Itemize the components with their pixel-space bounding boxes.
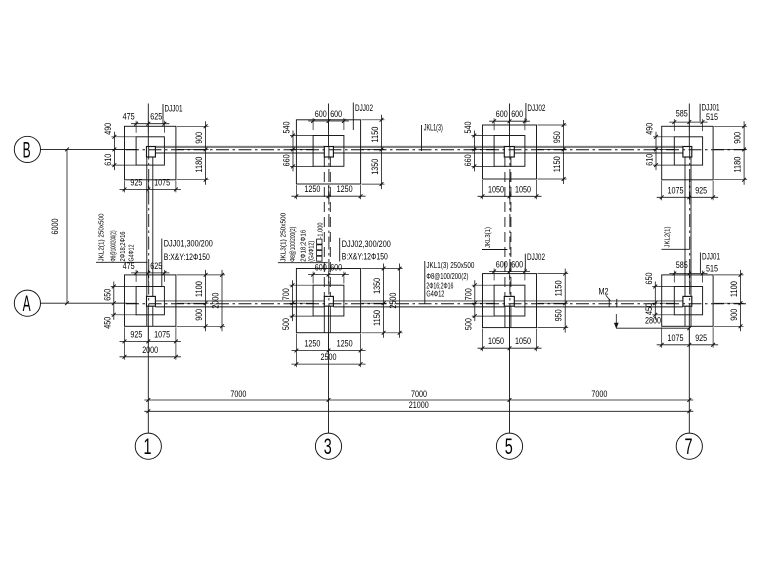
svg-text:1150: 1150 [370,127,380,143]
svg-text:1180: 1180 [733,157,743,173]
svg-text:925: 925 [695,333,707,343]
svg-text:-1.000: -1.000 [316,223,325,239]
svg-text:950: 950 [552,131,562,143]
svg-text:900: 900 [194,132,204,144]
svg-text:1150: 1150 [554,280,564,296]
svg-text:M2: M2 [599,287,609,297]
svg-text:1075: 1075 [668,185,684,195]
svg-text:(G4Φ12): (G4Φ12) [306,241,315,262]
svg-text:Φ8@100/200(2): Φ8@100/200(2) [426,272,468,281]
svg-text:DJJ01,300/200: DJJ01,300/200 [164,239,213,249]
svg-text:600: 600 [511,109,523,119]
svg-text:600: 600 [511,259,523,269]
svg-text:600: 600 [330,109,342,119]
svg-text:7: 7 [685,434,693,459]
svg-text:DJJ02: DJJ02 [355,103,373,113]
svg-text:1250: 1250 [337,339,353,349]
svg-text:925: 925 [695,185,707,195]
svg-text:475: 475 [123,112,135,122]
svg-text:JKL2(1) 250x500: JKL2(1) 250x500 [97,214,106,262]
svg-text:G4Φ12: G4Φ12 [127,245,136,262]
svg-text:600: 600 [496,109,508,119]
svg-text:Φ8@100/200(2): Φ8@100/200(2) [108,231,117,262]
svg-text:7000: 7000 [230,389,246,399]
svg-text:450: 450 [644,303,654,315]
svg-text:JKL3(1): JKL3(1) [483,227,492,248]
svg-text:JKL3(1) 250x500: JKL3(1) 250x500 [278,213,287,262]
svg-text:1150: 1150 [552,156,562,172]
svg-text:3: 3 [324,434,332,459]
svg-text:DJJ02,300/200: DJJ02,300/200 [342,239,391,249]
svg-text:JKL1(3) 250x500: JKL1(3) 250x500 [426,261,475,270]
svg-text:2000: 2000 [211,293,221,309]
svg-text:DJJ01: DJJ01 [702,252,720,262]
svg-text:1180: 1180 [194,157,204,173]
svg-text:950: 950 [554,309,564,321]
svg-text:DJJ01: DJJ01 [165,104,183,114]
svg-text:625: 625 [150,112,162,122]
svg-text:2800: 2800 [645,316,661,326]
svg-text:450: 450 [102,317,112,329]
svg-text:B:X&Y:12Φ150: B:X&Y:12Φ150 [164,252,210,262]
svg-text:DJJ01: DJJ01 [702,103,720,113]
svg-text:900: 900 [729,309,739,321]
svg-text:1075: 1075 [668,333,684,343]
svg-text:7000: 7000 [591,389,607,399]
svg-text:1350: 1350 [370,159,380,175]
svg-text:6000: 6000 [50,219,60,235]
svg-text:660: 660 [463,154,473,166]
svg-text:900: 900 [733,132,743,144]
svg-text:1: 1 [144,434,152,459]
svg-text:600: 600 [330,263,342,273]
svg-text:A: A [23,291,31,316]
svg-text:515: 515 [706,264,718,274]
svg-text:925: 925 [130,177,142,187]
svg-text:Φ8@100/200(2): Φ8@100/200(2) [288,227,297,262]
svg-text:610: 610 [645,154,655,166]
svg-text:JKL1(3): JKL1(3) [424,123,443,133]
svg-text:B: B [23,137,31,162]
svg-text:1100: 1100 [729,281,739,297]
svg-text:1250: 1250 [304,339,320,349]
svg-text:515: 515 [706,112,718,122]
svg-text:1050: 1050 [488,336,504,346]
svg-text:2500: 2500 [388,293,398,309]
svg-text:540: 540 [282,122,292,134]
svg-text:1250: 1250 [304,184,320,194]
svg-text:7000: 7000 [411,389,427,399]
svg-text:490: 490 [645,123,655,135]
svg-text:2000: 2000 [142,345,158,355]
svg-text:650: 650 [102,289,112,301]
svg-text:610: 610 [103,154,113,166]
svg-text:1050: 1050 [515,336,531,346]
svg-text:540: 540 [463,122,473,134]
svg-text:DJJ02: DJJ02 [527,103,545,113]
svg-text:600: 600 [315,109,327,119]
svg-text:JKL2(1): JKL2(1) [663,227,672,248]
svg-text:2Φ18;2Φ16: 2Φ18;2Φ16 [118,232,127,262]
svg-text:1075: 1075 [154,329,170,339]
svg-text:490: 490 [103,123,113,135]
svg-text:1050: 1050 [515,184,531,194]
svg-text:500: 500 [281,318,291,330]
svg-text:2500: 2500 [321,352,337,362]
svg-text:1350: 1350 [372,278,382,294]
svg-text:585: 585 [676,260,688,270]
svg-text:21000: 21000 [409,400,429,410]
svg-text:900: 900 [194,309,204,321]
svg-text:1150: 1150 [372,310,382,326]
svg-text:650: 650 [644,273,654,285]
svg-text:600: 600 [315,263,327,273]
svg-text:1250: 1250 [337,184,353,194]
svg-text:1100: 1100 [194,281,204,297]
svg-text:B:X&Y:12Φ150: B:X&Y:12Φ150 [342,252,388,262]
svg-text:5: 5 [505,434,513,459]
svg-text:600: 600 [496,259,508,269]
svg-text:585: 585 [676,109,688,119]
svg-text:700: 700 [281,288,291,300]
svg-text:625: 625 [150,261,162,271]
svg-text:700: 700 [463,288,473,300]
svg-text:DJJ02: DJJ02 [527,252,545,262]
svg-text:925: 925 [130,329,142,339]
svg-text:500: 500 [463,318,473,330]
svg-text:1075: 1075 [154,177,170,187]
svg-text:1050: 1050 [488,184,504,194]
svg-text:G4Φ12: G4Φ12 [426,290,444,299]
svg-text:660: 660 [282,154,292,166]
